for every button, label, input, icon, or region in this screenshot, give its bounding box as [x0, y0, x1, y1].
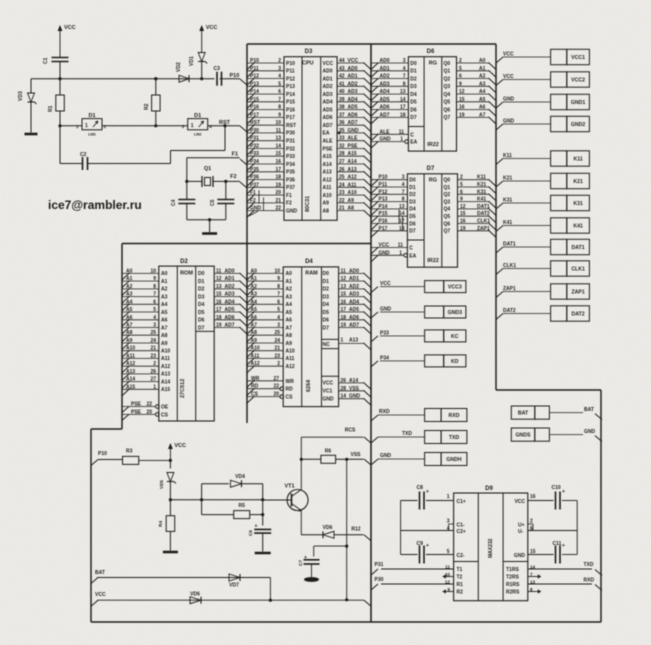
- svg-text:C1-: C1-: [457, 523, 465, 529]
- svg-text:F1: F1: [286, 193, 292, 199]
- svg-text:A11: A11: [323, 185, 332, 191]
- svg-text:A2: A2: [251, 284, 258, 290]
- svg-text:Q6: Q6: [444, 221, 451, 227]
- svg-text:C2+: C2+: [457, 529, 466, 535]
- svg-text:PSE: PSE: [323, 146, 334, 152]
- svg-text:F1: F1: [232, 152, 238, 158]
- svg-text:D9: D9: [485, 486, 493, 492]
- svg-text:GND: GND: [380, 453, 392, 459]
- svg-text:P16: P16: [286, 107, 295, 113]
- svg-text:T2: T2: [457, 575, 463, 581]
- svg-text:16: 16: [530, 494, 536, 500]
- svg-text:1: 1: [191, 123, 194, 129]
- svg-text:VD2: VD2: [176, 62, 182, 72]
- svg-text:ZAP1: ZAP1: [571, 290, 584, 296]
- svg-text:43: 43: [339, 66, 345, 72]
- svg-text:AD3: AD3: [349, 292, 359, 298]
- svg-text:26: 26: [150, 369, 156, 375]
- svg-text:P31: P31: [250, 136, 259, 142]
- svg-text:2: 2: [277, 361, 280, 367]
- svg-text:15: 15: [459, 97, 465, 103]
- svg-text:GNDH: GNDH: [446, 457, 462, 463]
- svg-text:16: 16: [341, 299, 347, 305]
- svg-text:D6: D6: [409, 221, 416, 227]
- svg-text:CLK1: CLK1: [477, 219, 490, 225]
- svg-text:K41: K41: [477, 197, 486, 203]
- svg-text:C6: C6: [248, 530, 253, 536]
- svg-text:4: 4: [402, 182, 405, 188]
- svg-text:AD7: AD7: [323, 123, 333, 129]
- svg-text:ice7@rambler.ru: ice7@rambler.ru: [48, 198, 142, 212]
- svg-text:OE: OE: [161, 405, 169, 411]
- svg-text:A2: A2: [161, 287, 168, 293]
- svg-text:TXD: TXD: [584, 562, 594, 568]
- svg-text:A2: A2: [479, 74, 486, 80]
- svg-text:F2: F2: [286, 201, 292, 207]
- svg-text:12: 12: [460, 204, 466, 210]
- svg-text:Q1: Q1: [204, 166, 211, 172]
- svg-text:AD0: AD0: [380, 58, 390, 64]
- svg-text:C1+: C1+: [457, 499, 466, 505]
- svg-text:18: 18: [400, 112, 406, 118]
- svg-text:Q5: Q5: [444, 214, 451, 220]
- svg-text:8: 8: [403, 81, 406, 87]
- svg-text:AD6: AD6: [225, 315, 235, 321]
- svg-text:T1: T1: [457, 567, 463, 573]
- svg-text:39: 39: [339, 97, 345, 103]
- svg-text:2: 2: [153, 361, 156, 367]
- svg-text:A0: A0: [286, 271, 293, 277]
- svg-text:A14: A14: [349, 378, 358, 384]
- svg-text:A10: A10: [251, 346, 260, 352]
- svg-text:A10: A10: [126, 346, 135, 352]
- svg-text:GND: GND: [380, 137, 392, 143]
- svg-text:Q3: Q3: [444, 199, 451, 205]
- svg-text:A1: A1: [286, 279, 293, 285]
- svg-text:A9: A9: [348, 198, 355, 204]
- svg-text:42: 42: [339, 74, 345, 80]
- svg-text:A15: A15: [323, 154, 332, 160]
- svg-text:AD4: AD4: [323, 100, 333, 106]
- svg-text:P15: P15: [379, 211, 388, 217]
- svg-text:AD2: AD2: [380, 74, 390, 80]
- svg-text:20: 20: [275, 190, 281, 196]
- svg-text:P11: P11: [250, 66, 259, 72]
- svg-text:24: 24: [339, 182, 345, 188]
- svg-text:RD: RD: [286, 387, 294, 393]
- svg-text:A10: A10: [323, 193, 332, 199]
- svg-text:P37: P37: [250, 182, 259, 188]
- svg-text:ROM: ROM: [180, 271, 193, 277]
- svg-text:D1: D1: [88, 113, 95, 119]
- svg-text:D3: D3: [305, 49, 313, 55]
- svg-text:D5: D5: [198, 310, 205, 316]
- svg-text:24: 24: [274, 338, 280, 344]
- svg-text:A8: A8: [251, 330, 258, 336]
- svg-text:AD6: AD6: [348, 112, 358, 118]
- svg-text:AD0: AD0: [348, 66, 358, 72]
- svg-text:33: 33: [339, 136, 345, 142]
- svg-text:D7: D7: [198, 325, 205, 331]
- svg-text:11: 11: [399, 129, 405, 135]
- svg-text:ALE: ALE: [323, 139, 334, 145]
- svg-text:+: +: [426, 489, 429, 495]
- svg-text:14: 14: [341, 394, 347, 400]
- svg-text:A11: A11: [286, 356, 295, 362]
- svg-text:GND: GND: [584, 429, 596, 435]
- svg-text:AD5: AD5: [380, 97, 390, 103]
- svg-text:1: 1: [153, 384, 156, 390]
- svg-text:38: 38: [339, 105, 345, 111]
- svg-text:7: 7: [402, 189, 405, 195]
- svg-text:C3: C3: [214, 66, 221, 72]
- svg-text:A14: A14: [348, 159, 357, 165]
- svg-text:32: 32: [339, 144, 345, 150]
- svg-text:GND: GND: [349, 394, 361, 400]
- svg-text:A8: A8: [286, 333, 293, 339]
- svg-text:3: 3: [277, 323, 280, 329]
- svg-text:11: 11: [216, 268, 222, 274]
- svg-text:11: 11: [276, 128, 282, 134]
- svg-text:D1: D1: [410, 69, 417, 75]
- svg-text:21: 21: [274, 346, 280, 352]
- svg-text:A4: A4: [251, 299, 258, 305]
- svg-text:A4: A4: [126, 299, 133, 305]
- svg-text:VD5: VD5: [159, 480, 164, 489]
- svg-text:6: 6: [530, 526, 533, 532]
- svg-text:28: 28: [341, 386, 347, 392]
- svg-text:16: 16: [275, 159, 281, 165]
- svg-text:10: 10: [274, 268, 280, 274]
- svg-text:D5: D5: [409, 214, 416, 220]
- svg-text:GND: GND: [286, 208, 298, 214]
- svg-text:VCC1: VCC1: [571, 55, 585, 61]
- svg-text:P17: P17: [379, 226, 388, 232]
- svg-text:T1RS: T1RS: [506, 567, 519, 573]
- svg-text:P10: P10: [250, 58, 259, 64]
- svg-text:TXD: TXD: [402, 431, 412, 437]
- svg-text:P35: P35: [250, 167, 259, 173]
- svg-text:F1: F1: [250, 190, 256, 196]
- svg-text:C: C: [409, 246, 413, 252]
- svg-text:AD6: AD6: [380, 105, 390, 111]
- svg-text:1: 1: [341, 338, 344, 344]
- svg-text:VC1: VC1: [323, 389, 333, 395]
- svg-text:P30: P30: [375, 577, 384, 583]
- svg-text:19: 19: [459, 112, 465, 118]
- svg-text:A11: A11: [348, 182, 357, 188]
- svg-text:28: 28: [339, 151, 345, 157]
- svg-text:D4: D4: [323, 302, 330, 308]
- svg-text:1: 1: [447, 494, 450, 500]
- svg-text:+: +: [304, 555, 307, 561]
- svg-text:12: 12: [216, 276, 222, 282]
- svg-text:R12: R12: [351, 527, 360, 533]
- svg-text:CPU: CPU: [302, 61, 314, 67]
- svg-text:GND: GND: [514, 553, 526, 559]
- svg-text:AD7: AD7: [349, 323, 359, 329]
- svg-text:P36: P36: [250, 175, 259, 181]
- svg-text:C2-: C2-: [457, 553, 465, 559]
- svg-text:15: 15: [460, 211, 466, 217]
- svg-text:VCC: VCC: [206, 25, 218, 31]
- svg-text:27: 27: [273, 376, 279, 382]
- svg-text:D1: D1: [194, 113, 201, 119]
- svg-text:8: 8: [153, 284, 156, 290]
- svg-text:VCC3: VCC3: [448, 285, 462, 291]
- svg-text:13: 13: [400, 89, 406, 95]
- svg-text:DAT1: DAT1: [477, 204, 490, 210]
- svg-text:F2: F2: [230, 174, 236, 180]
- svg-text:A13: A13: [323, 170, 332, 176]
- svg-text:MAX232: MAX232: [488, 538, 494, 558]
- svg-text:12: 12: [459, 89, 465, 95]
- svg-text:D7: D7: [323, 325, 330, 331]
- svg-text:TXD: TXD: [449, 435, 460, 441]
- svg-text:D6: D6: [323, 318, 330, 324]
- svg-text:AD5: AD5: [349, 307, 359, 313]
- svg-text:40: 40: [339, 89, 345, 95]
- svg-text:PSE: PSE: [131, 409, 142, 415]
- svg-text:C7: C7: [298, 560, 303, 566]
- svg-text:VCC: VCC: [514, 499, 525, 505]
- svg-text:KD: KD: [451, 359, 459, 365]
- svg-text:23: 23: [274, 353, 280, 359]
- svg-text:27: 27: [339, 159, 345, 165]
- svg-text:8: 8: [278, 105, 281, 111]
- svg-text:A5: A5: [251, 307, 258, 313]
- svg-text:AD4: AD4: [348, 97, 358, 103]
- svg-text:P12: P12: [379, 189, 388, 195]
- svg-text:AD6: AD6: [349, 315, 359, 321]
- svg-text:ALE: ALE: [380, 129, 391, 135]
- svg-text:R1: R1: [457, 582, 464, 588]
- svg-text:CLK1: CLK1: [571, 267, 585, 273]
- svg-text:A13: A13: [161, 372, 170, 378]
- svg-text:11: 11: [398, 243, 404, 249]
- svg-text:Q2: Q2: [444, 76, 451, 82]
- svg-text:P37: P37: [286, 185, 295, 191]
- svg-text:WR: WR: [286, 379, 295, 385]
- svg-text:IR22: IR22: [427, 142, 439, 148]
- svg-text:C5: C5: [210, 199, 216, 206]
- svg-text:9: 9: [278, 112, 281, 118]
- svg-text:7: 7: [153, 292, 156, 298]
- svg-text:Q1: Q1: [444, 69, 451, 75]
- svg-text:2: 2: [460, 175, 463, 181]
- svg-text:25: 25: [150, 330, 156, 336]
- svg-text:27: 27: [150, 377, 156, 383]
- svg-text:K11: K11: [477, 175, 486, 181]
- svg-text:DAT1: DAT1: [572, 245, 585, 251]
- svg-text:A7: A7: [286, 325, 293, 331]
- svg-text:VD7: VD7: [229, 583, 239, 589]
- svg-text:AD1: AD1: [323, 76, 333, 82]
- svg-text:PSE: PSE: [348, 144, 359, 150]
- svg-text:25: 25: [339, 175, 345, 181]
- svg-text:A2: A2: [286, 287, 293, 293]
- svg-text:AD3: AD3: [225, 292, 235, 298]
- svg-text:D3: D3: [323, 294, 330, 300]
- svg-text:P11: P11: [286, 69, 295, 75]
- svg-text:D0: D0: [323, 271, 330, 277]
- svg-text:P16: P16: [250, 105, 259, 111]
- svg-text:A8: A8: [126, 330, 133, 336]
- svg-text:C11: C11: [553, 541, 562, 547]
- svg-text:17: 17: [400, 105, 406, 111]
- svg-text:NC: NC: [323, 342, 331, 348]
- svg-text:AD6: AD6: [323, 115, 333, 121]
- svg-text:A9: A9: [286, 341, 293, 347]
- svg-text:VCC2: VCC2: [571, 78, 585, 84]
- svg-text:D6: D6: [410, 107, 417, 113]
- svg-text:U-: U-: [518, 529, 524, 535]
- svg-text:A6: A6: [286, 318, 293, 324]
- svg-text:KC: KC: [451, 334, 459, 340]
- svg-text:6: 6: [277, 299, 280, 305]
- svg-text:VCC: VCC: [323, 61, 334, 67]
- svg-text:A3: A3: [479, 81, 486, 87]
- svg-text:24: 24: [150, 338, 156, 344]
- svg-text:Q7: Q7: [444, 115, 451, 121]
- svg-text:P30: P30: [286, 131, 295, 137]
- svg-text:6: 6: [459, 74, 462, 80]
- svg-text:A4: A4: [161, 302, 168, 308]
- svg-text:AD3: AD3: [380, 81, 390, 87]
- svg-text:3: 3: [402, 175, 405, 181]
- svg-text:P10: P10: [230, 73, 240, 79]
- svg-text:GND1: GND1: [571, 100, 586, 106]
- svg-text:19: 19: [341, 323, 347, 329]
- svg-text:D0: D0: [410, 61, 417, 67]
- svg-text:P13: P13: [379, 197, 388, 203]
- svg-text:18: 18: [399, 226, 405, 232]
- svg-text:RAM: RAM: [305, 271, 318, 277]
- svg-text:LM2: LM2: [194, 133, 202, 137]
- svg-text:RXD: RXD: [449, 413, 460, 419]
- svg-text:P17: P17: [250, 112, 259, 118]
- svg-text:10: 10: [150, 268, 156, 274]
- svg-text:A8: A8: [348, 206, 355, 212]
- svg-text:5: 5: [278, 81, 281, 87]
- svg-text:4: 4: [278, 74, 281, 80]
- svg-text:ZAP1: ZAP1: [477, 226, 490, 232]
- svg-text:AD7: AD7: [225, 323, 235, 329]
- svg-text:9: 9: [153, 276, 156, 282]
- svg-text:17: 17: [275, 167, 281, 173]
- svg-text:+: +: [255, 524, 258, 530]
- svg-text:14: 14: [399, 211, 405, 217]
- svg-text:41: 41: [339, 81, 345, 87]
- svg-text:A6: A6: [479, 105, 486, 111]
- svg-text:VT1: VT1: [285, 484, 295, 490]
- svg-text:P15: P15: [286, 100, 295, 106]
- svg-text:AD1: AD1: [349, 276, 359, 282]
- svg-text:D0: D0: [409, 178, 416, 184]
- svg-text:A3: A3: [251, 292, 258, 298]
- svg-text:AD2: AD2: [348, 81, 358, 87]
- svg-text:K31: K31: [477, 189, 486, 195]
- svg-text:R1: R1: [48, 105, 54, 112]
- svg-text:D1: D1: [198, 279, 205, 285]
- svg-text:AD2: AD2: [323, 84, 333, 90]
- svg-text:A10: A10: [161, 349, 170, 355]
- svg-text:A3: A3: [286, 294, 293, 300]
- svg-text:EA: EA: [323, 131, 330, 137]
- svg-text:4: 4: [277, 315, 280, 321]
- svg-text:A4: A4: [286, 302, 293, 308]
- svg-text:VCC: VCC: [379, 243, 390, 249]
- svg-text:C4: C4: [171, 199, 177, 206]
- svg-text:P13: P13: [286, 84, 295, 90]
- svg-text:16: 16: [459, 105, 465, 111]
- svg-text:13: 13: [275, 136, 281, 142]
- svg-text:GND: GND: [250, 206, 262, 212]
- svg-text:A11: A11: [126, 353, 135, 359]
- svg-text:17: 17: [341, 307, 347, 313]
- svg-text:VSS: VSS: [350, 452, 361, 458]
- svg-text:GND3: GND3: [448, 310, 463, 316]
- svg-text:26: 26: [341, 378, 347, 384]
- svg-text:Q6: Q6: [444, 107, 451, 113]
- svg-text:21: 21: [150, 346, 156, 352]
- svg-text:RG: RG: [429, 61, 437, 67]
- svg-text:18: 18: [275, 175, 281, 181]
- svg-text:Q1: Q1: [444, 185, 451, 191]
- svg-text:4: 4: [153, 315, 156, 321]
- svg-text:20: 20: [273, 392, 279, 398]
- svg-text:9: 9: [459, 81, 462, 87]
- svg-text:13: 13: [341, 284, 347, 290]
- svg-text:P31: P31: [286, 139, 295, 145]
- svg-text:37: 37: [339, 112, 345, 118]
- svg-text:VD1: VD1: [189, 56, 195, 66]
- svg-text:1: 1: [85, 123, 88, 129]
- svg-text:1: 1: [399, 250, 402, 256]
- svg-text:22: 22: [146, 402, 152, 408]
- svg-text:R2: R2: [144, 103, 150, 110]
- svg-text:AD0: AD0: [323, 69, 333, 75]
- svg-text:AD4: AD4: [225, 299, 235, 305]
- svg-text:A10: A10: [286, 349, 295, 355]
- svg-text:D6: D6: [198, 318, 205, 324]
- svg-text:A1: A1: [126, 276, 133, 282]
- svg-text:AD3: AD3: [323, 92, 333, 98]
- svg-text:22: 22: [339, 198, 345, 204]
- svg-text:A14: A14: [323, 162, 332, 168]
- svg-text:A15: A15: [348, 151, 357, 157]
- svg-text:A9: A9: [323, 201, 330, 207]
- svg-text:D7: D7: [410, 115, 417, 121]
- svg-text:BAT: BAT: [584, 407, 594, 413]
- svg-text:D5: D5: [323, 310, 330, 316]
- svg-text:A11: A11: [251, 353, 260, 359]
- svg-text:A12: A12: [323, 177, 332, 183]
- svg-text:EA: EA: [409, 253, 416, 259]
- svg-text:Q3: Q3: [444, 84, 451, 90]
- svg-text:IR22: IR22: [427, 258, 439, 264]
- svg-text:A9: A9: [126, 338, 133, 344]
- svg-text:A8: A8: [323, 208, 330, 214]
- svg-text:5: 5: [153, 307, 156, 313]
- svg-text:AD5: AD5: [225, 307, 235, 313]
- svg-text:RST: RST: [250, 120, 260, 126]
- svg-text:7: 7: [403, 74, 406, 80]
- svg-text:D4: D4: [305, 259, 313, 265]
- svg-text:RST: RST: [286, 123, 296, 129]
- svg-text:A7: A7: [251, 323, 258, 329]
- svg-text:A13: A13: [348, 167, 357, 173]
